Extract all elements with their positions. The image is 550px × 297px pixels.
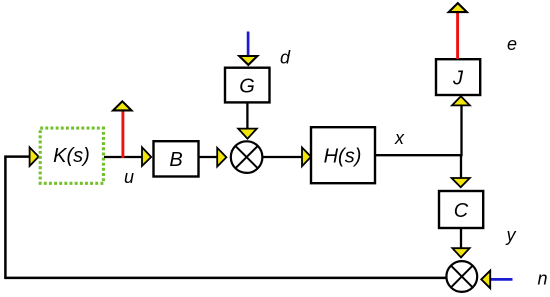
wire arrowhead into C top [452,178,470,187]
block G [225,68,270,103]
summing junction S2 [446,261,477,292]
node n blue input [490,278,512,281]
svg-text:G: G [239,76,255,98]
wire arrowhead into B [142,147,151,166]
wire arrowhead into S2 [452,248,469,257]
node arrowhead into K(s) [30,147,39,166]
svg-text:H(s): H(s) [324,146,362,168]
block B [154,141,199,176]
wire arrowhead into S1 [217,148,226,167]
node d blue input arrow [247,32,250,56]
svg-text:y: y [505,225,517,245]
wire H(s) output to branch [375,154,462,156]
wire S1 to H(s) [263,156,302,158]
controller K1 dashed box K(s) [40,128,103,183]
node u tap arrow [113,101,131,110]
wire branch down to C [460,154,462,178]
svg-text:e: e [507,34,517,54]
svg-text:J: J [452,68,464,90]
svg-text:C: C [454,200,469,222]
wire G to S1 [246,102,248,129]
summing junction S1 [231,141,263,173]
svg-text:B: B [169,149,182,171]
wire arrowhead G into S1 [238,129,257,139]
block C [439,191,483,228]
node e red output arrow [456,13,459,59]
svg-text:d: d [280,48,291,68]
wire arrowhead into J bottom [452,96,470,105]
block J [436,59,480,95]
node u tap red line [121,111,124,158]
wire K(s) to B [104,156,142,158]
wire arrowhead into H(s) [302,148,311,167]
plant H(s) block [311,127,375,183]
wire B to sum S1 [199,156,218,158]
wire feedback path from sum S2 to K(s) input [5,157,446,278]
svg-text:x: x [394,128,405,148]
svg-text:K(s): K(s) [53,145,90,167]
wire C to sum S2 [460,228,462,249]
svg-text:n: n [537,269,547,289]
svg-text:u: u [124,167,134,187]
wire branch up to J [460,106,462,157]
